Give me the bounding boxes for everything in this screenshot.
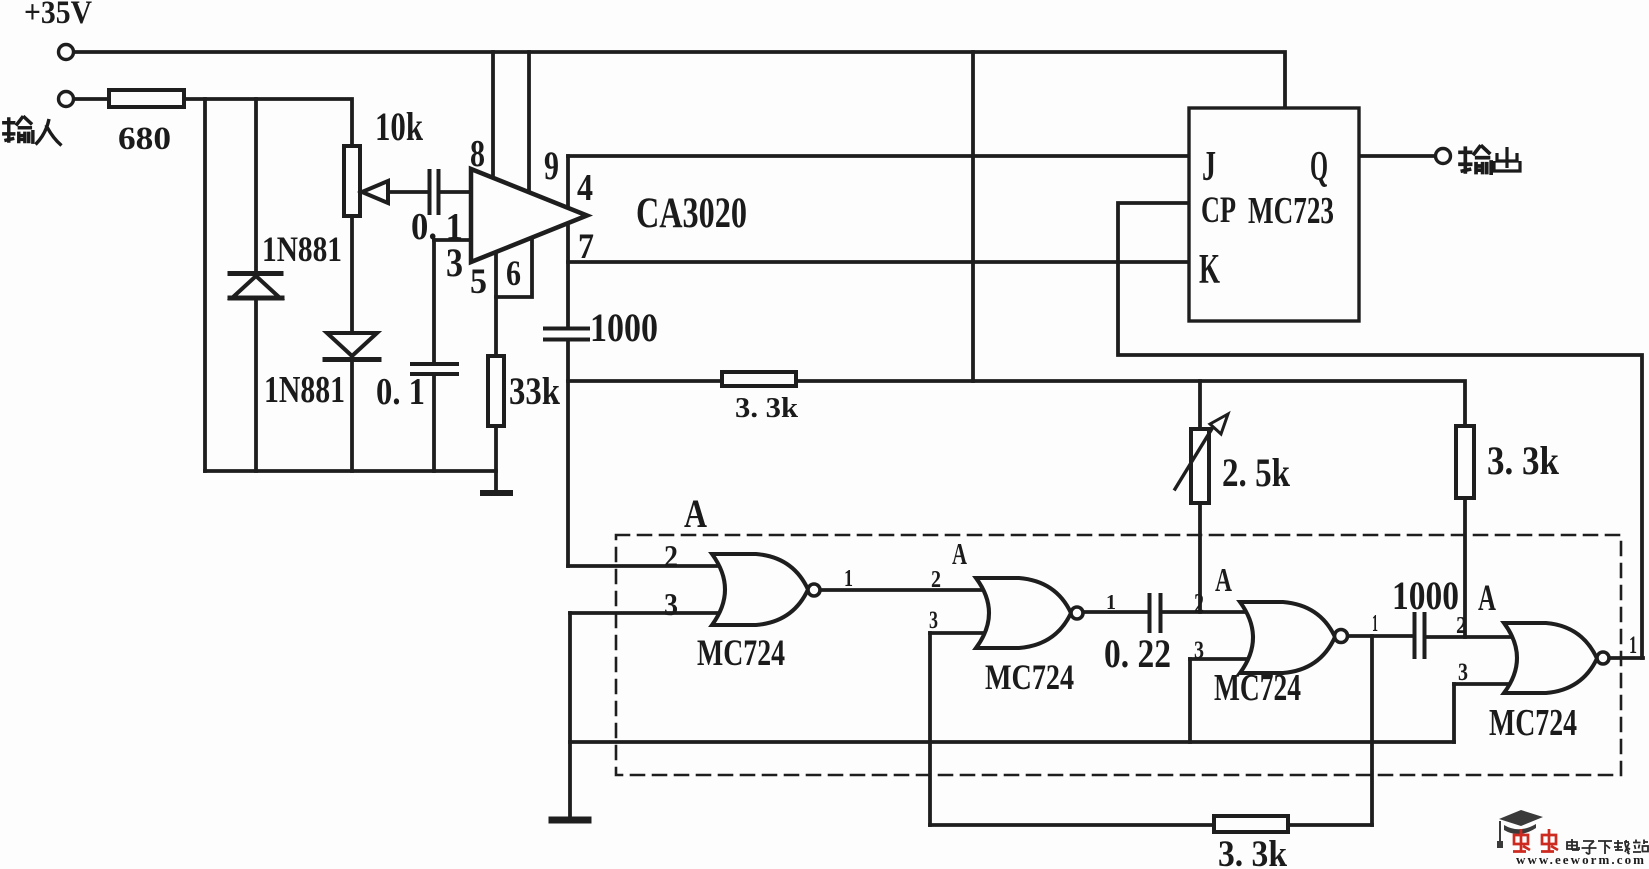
svg-text:0. 22: 0. 22 [1104,631,1171,676]
wire gate1 pin 2 [568,564,722,568]
logo graduation cap icon [1497,810,1543,848]
wire output node vertical (pin 9 / 1000 cap / gate1 pin2) [566,156,570,566]
svg-text:1: 1 [1629,632,1637,659]
svg-text:2: 2 [1456,613,1467,639]
logo 电子下载站 [1567,839,1648,854]
wire 0.1 cap to op-amp pin 2 [441,190,471,194]
resistor 3.3k right [1456,426,1474,498]
NOR gate U4 MC724 [1504,623,1597,693]
resistor 680 [109,90,184,107]
flip-flop MC723 box [1189,108,1359,321]
wire gate2 output to 0.22 cap [1083,610,1147,614]
wire K input row (op-amp pin 7) [568,260,1189,264]
resistor 10k potentiometer body [344,146,360,216]
wire gate2 pin3 drop to bottom 3.3k [928,633,932,825]
svg-text:3: 3 [446,240,463,285]
wire 680 to 10k pot top [184,99,352,146]
svg-text:A: A [952,536,967,571]
op-amp CA3020 [471,169,587,262]
wire through diode D1 [254,99,258,471]
svg-text:3: 3 [929,607,938,634]
svg-text:5: 5 [470,261,487,301]
svg-text:J: J [1202,144,1216,190]
wire gates common rail [570,740,1454,744]
ground below 33k [483,490,510,496]
svg-text:2: 2 [1194,589,1204,620]
diode D2 1N881 [327,333,377,356]
svg-text:1N881: 1N881 [262,229,342,269]
capacitor 0.1 lower plates [412,364,457,374]
svg-text:www.eeworm.com: www.eeworm.com [1516,852,1644,867]
capacitor 1000 plates (left) [545,329,588,340]
wire 2.5k bottom to gate3 pin2 row [1198,503,1202,612]
wire 2.5k top [1198,381,1202,428]
resistor 3.3k horizontal [722,372,796,386]
dashed box around MC724 gates [616,535,1621,775]
capacitor 0.22 plates [1150,595,1161,631]
svg-text:3: 3 [664,586,678,622]
svg-text:33k: 33k [509,370,560,413]
wire op-amp pin 5 to 33k [494,252,498,356]
ground below gate1 pin3 [552,817,588,824]
wire pin3 node down through 0.1 cap to rail [432,240,436,471]
svg-text:680: 680 [118,121,171,157]
wire 1000 cap to gate4 pin2 [1427,635,1510,639]
2.5k arrow [1175,427,1213,489]
wire gate3 pin 3 [1190,657,1246,661]
capacitor 0.1 coupling plates [430,171,439,213]
svg-text:Q: Q [1310,144,1328,190]
label 输出 (output) [1458,145,1520,175]
wire gate4 pin3 drop to rail [1452,684,1456,742]
10k wiper arrow head [362,181,388,203]
svg-text:2. 5k: 2. 5k [1222,450,1291,495]
svg-text:3. 3k: 3. 3k [735,392,799,424]
svg-text:MC724: MC724 [985,657,1074,697]
svg-text:CP: CP [1201,190,1236,231]
svg-text:1: 1 [1106,590,1116,614]
NOR gate U2 MC724 [976,578,1071,648]
svg-text:K: K [1199,247,1220,293]
wire op-amp supply pin to +35V rail [527,52,531,192]
wire bottom rail of input network [205,469,496,473]
wire gate1 pin3 node to ground [568,613,572,818]
wire gate2 pin 3 [930,631,982,635]
svg-text:A: A [684,491,707,536]
svg-text:MC724: MC724 [697,633,785,674]
wire +35V drop at x973 [971,52,975,381]
svg-text:3. 3k: 3. 3k [1218,834,1287,869]
svg-text:A: A [1215,562,1232,599]
diode D1 1N881 [230,271,281,276]
svg-text:7: 7 [578,226,594,266]
svg-text:3. 3k: 3. 3k [1487,438,1560,483]
svg-text:3: 3 [1458,659,1468,686]
NOR gate U1 MC724 [712,554,808,625]
wire J input row [568,154,1189,158]
wire 0.22 cap to gate3 pin2 [1163,610,1246,614]
svg-text:1: 1 [1372,611,1378,637]
wire CP loop from flip-flop to gate4 output [1118,203,1642,658]
svg-text:3: 3 [1194,637,1204,664]
wire gate4 pin 3 [1454,682,1510,686]
wire +35V top rail [74,52,1285,108]
NOR gate U3 MC724 [1240,602,1335,673]
svg-text:9: 9 [544,143,559,188]
wire input terminal to 680 [74,97,109,101]
wire gate1 pin 3 [570,611,722,615]
wire op-amp pin 6 loop to pin 5 [496,238,532,297]
terminal +35V [59,45,74,60]
svg-text:CA3020: CA3020 [636,190,747,237]
wire 3.3k right bottom to gate4 pin2 row [1463,498,1467,637]
svg-text:1N881: 1N881 [264,369,345,411]
svg-text:2: 2 [664,538,678,574]
wire gate4 output stub [1610,656,1643,660]
terminal output [1436,149,1451,164]
svg-text:6: 6 [506,253,521,293]
wire op-amp pin 8 to +35V rail [491,52,495,178]
svg-text:MC724: MC724 [1489,702,1577,744]
svg-text:2: 2 [931,567,941,593]
svg-text:0. 1: 0. 1 [376,371,425,413]
svg-text:8: 8 [470,133,485,175]
svg-text:1: 1 [844,566,853,592]
terminal input [59,92,74,107]
svg-text:10k: 10k [375,104,424,149]
resistor 3.3k bottom [1214,816,1288,832]
resistor 33k [488,356,504,426]
wire gate1 output to gate2 pin2 [820,588,982,592]
svg-text:MC723: MC723 [1248,190,1334,232]
wire 10k pot bottom through diode D2 [350,216,354,471]
svg-text:1000: 1000 [590,305,658,350]
svg-text:1000: 1000 [1392,573,1459,618]
resistor 2.5k body [1191,429,1209,503]
logo 虫虫 (red) [1513,829,1558,852]
svg-text:4: 4 [577,167,593,209]
wire 3.3k feedback row [568,381,1465,426]
svg-text:+35V: +35V [24,0,92,31]
wire gate3 pin3 drop to rail [1188,659,1192,742]
wire drop at x205 to bottom rail [203,99,207,471]
wire gate3 output to 1000 cap [1348,634,1412,638]
wire bottom 3.3k row [930,823,1372,827]
wire junction drop to bottom 3.3k [1370,636,1374,825]
wire wiper arrow shaft to 0.1 cap [362,190,427,194]
label 输入 (input) [2,116,61,145]
svg-text:MC724: MC724 [1214,667,1301,709]
svg-text:A: A [1478,578,1496,619]
capacitor 1000 plates (gates) [1415,614,1425,657]
wire Q output to terminal [1359,154,1435,158]
wire 33k bottom to ground [494,426,498,492]
wire op-amp pin 3 [434,238,471,242]
